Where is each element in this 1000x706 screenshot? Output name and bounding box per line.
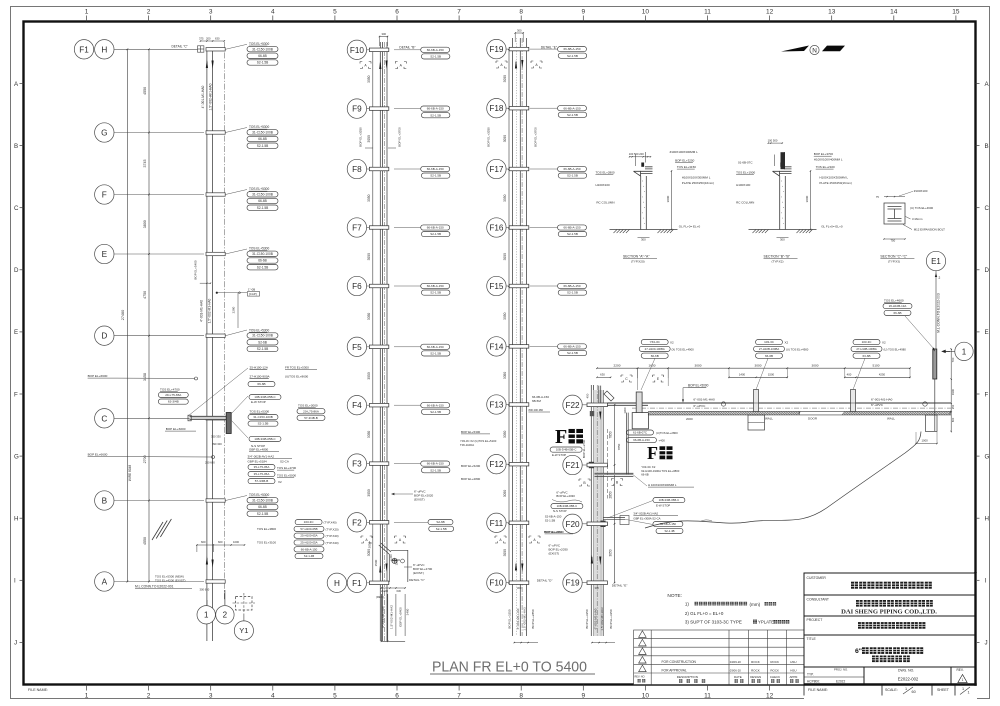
riser connection at F22 xyxy=(598,386,600,403)
svg-text:6": 6" xyxy=(855,648,862,655)
svg-text:1: 1 xyxy=(968,690,970,694)
svg-text:103-3C: 103-3C xyxy=(764,340,775,344)
centerline pipe run column 2 xyxy=(384,42,386,641)
svg-text:I: I xyxy=(985,578,987,585)
svg-text:200: 200 xyxy=(206,37,211,41)
grid bubble F14 xyxy=(487,337,506,356)
grid bubble F1 xyxy=(347,573,366,592)
svg-text:3: 3 xyxy=(209,693,213,700)
svg-text:BOP EL+3250: BOP EL+3250 xyxy=(585,609,589,629)
svg-text:6"-uPVC: 6"-uPVC xyxy=(871,403,884,407)
svg-text:3050: 3050 xyxy=(503,549,507,557)
F20 right small pipes xyxy=(603,517,625,519)
F2-area pill stack right xyxy=(295,520,322,525)
pipe run column 2 xyxy=(379,42,381,641)
bottom dims column 1 xyxy=(197,544,245,546)
svg-text:#100X100X300MM L: #100X100X300MM L xyxy=(670,150,699,154)
svg-text:NOTE:: NOTE: xyxy=(667,593,682,599)
svg-text:F3: F3 xyxy=(352,460,362,469)
svg-text:4: 4 xyxy=(271,9,275,16)
svg-text:B: B xyxy=(102,496,108,505)
svg-text:3158: 3158 xyxy=(143,373,147,381)
svg-text:F: F xyxy=(647,443,658,463)
svg-text:1600: 1600 xyxy=(649,363,656,367)
wall footing boxes xyxy=(748,415,765,430)
svg-text:9: 9 xyxy=(581,9,585,16)
svg-text:GBP EL+4800: GBP EL+4800 xyxy=(249,447,269,451)
svg-text:S2-1.5B: S2-1.5B xyxy=(567,54,578,58)
svg-text:+400: +400 xyxy=(659,439,666,443)
svg-text:D: D xyxy=(985,267,990,274)
svg-text:TOS EL+2100: TOS EL+2100 xyxy=(816,165,835,169)
svg-text:1.5"-002-M1-HA0: 1.5"-002-M1-HA0 xyxy=(208,298,212,323)
grid bubble F21 xyxy=(563,455,582,474)
svg-text:F22: F22 xyxy=(565,401,580,410)
svg-text:F10: F10 xyxy=(350,46,365,55)
svg-text:E1: E1 xyxy=(931,257,941,266)
svg-text:3460: 3460 xyxy=(406,608,410,615)
svg-text:S2-1.5B: S2-1.5B xyxy=(430,113,441,117)
svg-text:BOP EL+3700: BOP EL+3700 xyxy=(534,127,538,147)
grid bubble F7 xyxy=(347,218,366,237)
svg-text:10B-3/4B-05B-C: 10B-3/4B-05B-C xyxy=(254,395,275,399)
right end riser xyxy=(933,349,937,379)
svg-text:TYP.: TYP. xyxy=(807,672,814,676)
svg-text:4750: 4750 xyxy=(143,291,147,299)
svg-text:CUSTOMER: CUSTOMER xyxy=(807,576,827,580)
pipe run column 4 line d xyxy=(602,390,604,636)
svg-text:S2-1.5B: S2-1.5B xyxy=(567,232,578,236)
drawing title line1 xyxy=(862,647,923,654)
svg-text:BOP EL+3250: BOP EL+3250 xyxy=(507,609,511,629)
svg-text:G: G xyxy=(101,128,107,137)
svg-text:BOP EL+5300: BOP EL+5300 xyxy=(461,430,481,434)
svg-text:1: 1 xyxy=(85,693,89,700)
column 4 pipe gray band xyxy=(594,390,601,636)
svg-text:TOS EL+3100: TOS EL+3100 xyxy=(257,541,276,545)
leader lines from pills to posts xyxy=(756,358,768,389)
svg-text:TITLE: TITLE xyxy=(807,637,817,641)
svg-text:5: 5 xyxy=(333,693,337,700)
svg-text:12: 12 xyxy=(766,9,774,16)
sub dims xyxy=(597,376,611,378)
svg-text:PLATE 250X250(16mm): PLATE 250X250(16mm) xyxy=(819,181,851,185)
svg-text:66-6B: 66-6B xyxy=(258,505,267,509)
svg-text:TOS EL+5300: TOS EL+5300 xyxy=(249,125,269,129)
svg-text:66-6B-A-150: 66-6B-A-150 xyxy=(563,284,580,288)
flow arrows column 2 xyxy=(379,61,381,70)
svg-text:25-H100-12A: 25-H100-12A xyxy=(250,366,269,370)
svg-text:DOOR: DOOR xyxy=(808,417,818,421)
section detail B-B xyxy=(780,176,786,230)
svg-text:TOS EL+5300: TOS EL+5300 xyxy=(249,247,269,251)
svg-text:BOP EL+3250: BOP EL+3250 xyxy=(487,127,491,147)
svg-text:66-6B: 66-6B xyxy=(893,311,901,315)
svg-text:S2-6B: S2-6B xyxy=(436,520,444,524)
svg-text:DETAIL "E": DETAIL "E" xyxy=(541,45,557,49)
svg-text:3050: 3050 xyxy=(367,431,371,439)
labels row E column1 xyxy=(249,247,269,251)
wall hatched band xyxy=(648,411,951,415)
svg-text:F13: F13 xyxy=(489,400,504,409)
svg-text:N: N xyxy=(812,47,817,54)
slope hatch marks xyxy=(152,522,163,540)
svg-text:T06-110DA: T06-110DA xyxy=(460,443,474,447)
svg-text:14: 14 xyxy=(890,9,898,16)
svg-text:7850: 7850 xyxy=(617,443,621,450)
svg-text:A: A xyxy=(102,577,108,586)
svg-text:3050: 3050 xyxy=(503,372,507,380)
labels around F21 xyxy=(550,447,582,452)
svg-text:YPLATE: YPLATE xyxy=(758,619,774,624)
labels F2 column 2 xyxy=(428,520,453,525)
svg-text:63-6B: 63-6B xyxy=(862,354,870,358)
svg-text:WALL: WALL xyxy=(887,417,895,421)
svg-text:BOP EL+3250: BOP EL+3250 xyxy=(358,127,362,147)
section flags below F11 xyxy=(495,536,506,543)
svg-text:1.5"-002-AV1-HA0: 1.5"-002-AV1-HA0 xyxy=(209,83,213,110)
revision table xyxy=(634,630,804,685)
dimension line pipe run column 3 xyxy=(508,49,510,583)
C-row labels right xyxy=(250,366,269,370)
svg-text:HSU: HSU xyxy=(790,669,796,673)
svg-text:66-6B-A-150: 66-6B-A-150 xyxy=(427,462,444,466)
grid bubble G xyxy=(95,123,114,142)
svg-text:5: 5 xyxy=(333,9,337,16)
svg-text:S2-1.5B: S2-1.5B xyxy=(257,347,269,351)
svg-text:600: 600 xyxy=(951,417,955,422)
svg-text:X2: X2 xyxy=(278,480,282,484)
svg-text:2000: 2000 xyxy=(686,417,693,421)
section flags below F19 xyxy=(496,61,507,68)
labels column 3 xyxy=(558,47,587,52)
col1 bottom pipe tails xyxy=(206,556,208,565)
svg-text:TOS EL+5300: TOS EL+5300 xyxy=(249,328,269,332)
svg-text:F: F xyxy=(555,426,567,448)
svg-text:REV.: REV. xyxy=(957,668,964,672)
svg-text:(U) TOS EL+4900: (U) TOS EL+4900 xyxy=(786,347,809,351)
svg-text:J: J xyxy=(985,640,988,647)
svg-text:ROCK: ROCK xyxy=(770,660,779,664)
svg-text:BOP EL+3250: BOP EL+3250 xyxy=(609,609,613,629)
column 1 grid lines xyxy=(114,48,204,50)
svg-text:BOP EL+5400: BOP EL+5400 xyxy=(194,260,198,280)
svg-text:F14: F14 xyxy=(489,342,504,351)
svg-text:3800: 3800 xyxy=(143,220,147,228)
svg-text:BOP EL+6000: BOP EL+6000 xyxy=(166,427,186,431)
svg-text:2) GL FL+0 = EL+0: 2) GL FL+0 = EL+0 xyxy=(685,611,724,616)
svg-text:11: 11 xyxy=(704,693,711,700)
grid bubble F8 xyxy=(347,159,366,178)
svg-text:6"-001-M1-HA0: 6"-001-M1-HA0 xyxy=(594,608,598,629)
svg-text:6"-001-M1-HA0: 6"-001-M1-HA0 xyxy=(693,397,715,401)
svg-text:X2: X2 xyxy=(882,341,886,345)
svg-text:J: J xyxy=(14,640,17,647)
svg-text:66-6B-A-150: 66-6B-A-150 xyxy=(427,284,444,288)
svg-text:S2-1.5B: S2-1.5B xyxy=(430,351,441,355)
svg-text:2: 2 xyxy=(147,9,151,16)
grid bubble F13 xyxy=(487,395,506,414)
svg-text:X2: X2 xyxy=(670,341,674,345)
svg-text:E: E xyxy=(985,329,989,336)
svg-text:6: 6 xyxy=(395,9,399,16)
svg-text:TOS EL+3150: TOS EL+3150 xyxy=(677,165,696,169)
svg-text:D: D xyxy=(14,267,19,274)
svg-text:61-6B-07C: 61-6B-07C xyxy=(633,431,647,435)
dimension line pipe run column 2 xyxy=(372,50,374,583)
svg-text:7: 7 xyxy=(457,9,461,16)
svg-text:2200: 2200 xyxy=(614,363,621,367)
BOP EL+5000 label xyxy=(688,384,709,388)
svg-text:66-6B: 66-6B xyxy=(641,473,649,477)
svg-text:S2-1.4B: S2-1.4B xyxy=(304,554,315,558)
grid bubble F10 xyxy=(347,40,366,59)
svg-text:S2-1.5B: S2-1.5B xyxy=(430,291,441,295)
grid bubble F16 xyxy=(487,218,506,237)
extension lines for dims xyxy=(637,368,639,378)
svg-text:6"-001-M1-HA0: 6"-001-M1-HA0 xyxy=(871,397,893,401)
svg-text:(EXIST.): (EXIST.) xyxy=(413,571,424,575)
svg-text:S2-CA: S2-CA xyxy=(280,460,289,464)
svg-text:2: 2 xyxy=(147,693,151,700)
svg-text:3/4"-002B-AV1-HA2: 3/4"-002B-AV1-HA2 xyxy=(248,455,275,459)
svg-text:N-S STOP: N-S STOP xyxy=(553,509,567,513)
svg-text:S2-1.5B: S2-1.5B xyxy=(436,527,447,531)
svg-text:3000: 3000 xyxy=(812,363,819,367)
svg-text:7850: 7850 xyxy=(609,431,613,438)
svg-text:66-6B: 66-6B xyxy=(651,354,659,358)
svg-text:TOS EL+5300: TOS EL+5300 xyxy=(249,493,269,497)
grid bubble F19 xyxy=(563,573,582,592)
centerline pipe run column 3 xyxy=(521,38,523,636)
svg-text:04/09-20: 04/09-20 xyxy=(730,660,741,664)
svg-text:S2-1.5B: S2-1.5B xyxy=(545,518,556,522)
svg-text:GBP EL+5400: GBP EL+5400 xyxy=(398,607,402,627)
svg-text:57-H100-05B: 57-H100-05B xyxy=(300,527,317,531)
svg-text:#100X100: #100X100 xyxy=(914,189,928,193)
section flags below F2 xyxy=(361,536,372,543)
svg-text:26-H10B-13A: 26-H10B-13A xyxy=(889,304,907,308)
svg-text:GBP EL+308A S2-CA: GBP EL+308A S2-CA xyxy=(633,517,660,521)
svg-text:BOP EL+2850: BOP EL+2850 xyxy=(531,609,535,629)
svg-text:66-6B-A-150: 66-6B-A-150 xyxy=(427,345,444,349)
svg-text:TOS EL+4200 (EXIST): TOS EL+4200 (EXIST) xyxy=(155,579,186,583)
svg-text:BOP EL+5000: BOP EL+5000 xyxy=(688,384,709,388)
grid bubble A xyxy=(95,572,114,591)
svg-text:66-6B: 66-6B xyxy=(258,259,267,263)
svg-text:31-C150-100B: 31-C150-100B xyxy=(252,130,273,134)
svg-text:4250: 4250 xyxy=(879,373,886,377)
svg-text:BOP EL+2030: BOP EL+2030 xyxy=(556,494,575,498)
svg-text:27460: 27460 xyxy=(121,310,125,321)
svg-text:1: 1 xyxy=(905,687,907,691)
revision triangles xyxy=(639,631,647,638)
svg-text:31-C150-100B: 31-C150-100B xyxy=(252,252,273,256)
svg-text:63-3/4B: 63-3/4B xyxy=(168,400,179,404)
svg-text:6"-uPVC: 6"-uPVC xyxy=(693,404,706,408)
svg-text:8: 8 xyxy=(519,9,523,16)
detail block between F2 and F1 xyxy=(379,543,408,582)
labels column 2 xyxy=(421,47,450,52)
svg-text:3050: 3050 xyxy=(367,75,371,83)
centerline column 4 xyxy=(596,385,598,636)
svg-text:630: 630 xyxy=(600,373,605,377)
svg-text:7: 7 xyxy=(457,693,461,700)
300 dim top column 3 xyxy=(515,32,523,34)
svg-text:4"-001-M1-HA0: 4"-001-M1-HA0 xyxy=(201,85,205,108)
svg-text:3050: 3050 xyxy=(503,312,507,320)
svg-text:31-C150-100B: 31-C150-100B xyxy=(252,47,273,51)
svg-text:DESIGN: DESIGN xyxy=(750,675,761,679)
grid bubble F1 top-left xyxy=(74,40,93,59)
svg-text:1900: 1900 xyxy=(951,388,955,395)
F21 branch run xyxy=(595,473,634,475)
svg-text:F19: F19 xyxy=(565,579,580,588)
centerline column 1 xyxy=(223,42,225,600)
svg-text:2850: 2850 xyxy=(609,491,613,498)
customer company name xyxy=(851,582,932,589)
long leader S-curve xyxy=(645,432,921,529)
svg-text:H100X100X400MM L: H100X100X400MM L xyxy=(814,158,843,162)
svg-text:1000: 1000 xyxy=(233,540,239,544)
svg-text:3) SUP'T OF 3103-3C TYPE: 3) SUP'T OF 3103-3C TYPE xyxy=(685,619,742,624)
svg-text:3050: 3050 xyxy=(367,549,371,557)
wall posts xyxy=(754,390,759,412)
column 4 dark fittings xyxy=(589,462,594,468)
dims 800 400 480 below F13 xyxy=(528,411,550,413)
flow arrows column 4 xyxy=(591,555,593,564)
svg-text:E-W STOP: E-W STOP xyxy=(251,400,266,404)
svg-text:C: C xyxy=(101,414,107,423)
svg-text:10B-3/4B-05B-C: 10B-3/4B-05B-C xyxy=(556,448,577,452)
svg-text:66-6B: 66-6B xyxy=(257,382,265,386)
section detail C-C xyxy=(884,203,905,224)
svg-text:H: H xyxy=(334,579,340,588)
svg-text:13: 13 xyxy=(828,9,836,16)
svg-text:FILE NAME:: FILE NAME: xyxy=(28,688,48,692)
svg-text:2: 2 xyxy=(223,611,228,620)
section detail A-A xyxy=(641,176,647,230)
svg-text:100 500 200: 100 500 200 xyxy=(629,152,644,156)
svg-text:F9: F9 xyxy=(352,105,362,114)
thick border redraw over title block xyxy=(804,683,977,685)
svg-text:F1: F1 xyxy=(352,579,362,588)
svg-text:REV. NO: REV. NO xyxy=(635,676,645,679)
svg-text:S2-1.5B: S2-1.5B xyxy=(430,54,441,58)
svg-text:700: 700 xyxy=(951,357,955,362)
svg-text:66-6B-A-150: 66-6B-A-150 xyxy=(633,438,650,442)
svg-text:103-3C: 103-3C xyxy=(862,340,873,344)
svg-text:75: 75 xyxy=(876,195,879,199)
svg-text:6B-5M: 6B-5M xyxy=(532,399,541,403)
svg-text:(U) TOS EL+4600: (U) TOS EL+4600 xyxy=(910,206,934,210)
svg-text:66-6B: 66-6B xyxy=(258,137,267,141)
svg-text:DETAIL "C": DETAIL "C" xyxy=(172,44,188,48)
svg-text:FOR CONSTRUCTION: FOR CONSTRUCTION xyxy=(662,660,697,664)
labels row F column1 xyxy=(249,187,269,191)
svg-text:H: H xyxy=(101,45,107,54)
svg-text:1"-0B: 1"-0B xyxy=(248,288,255,292)
C-row labels left xyxy=(160,388,180,392)
svg-text:B: B xyxy=(14,143,18,150)
svg-text:S2-1.5B: S2-1.5B xyxy=(257,206,269,210)
svg-text:1.5"-002-M1-HA3: 1.5"-002-M1-HA3 xyxy=(600,607,604,631)
svg-text:3050: 3050 xyxy=(503,194,507,202)
svg-text:10: 10 xyxy=(642,9,650,16)
svg-text:1.5"-002-M1-HA2: 1.5"-002-M1-HA2 xyxy=(390,605,394,629)
svg-text:3000: 3000 xyxy=(666,195,670,202)
flanges pipe run column 2 xyxy=(369,48,388,52)
svg-text:66-6B-A-150: 66-6B-A-150 xyxy=(427,403,444,407)
svg-text:F4: F4 xyxy=(352,401,362,410)
svg-text:66-6B: 66-6B xyxy=(258,54,267,58)
TOS EL+4600 labels right xyxy=(884,299,904,303)
svg-text:66-6B: 66-6B xyxy=(765,354,773,358)
svg-text:1: 1 xyxy=(962,678,964,682)
svg-text:M12 EXPANSION BOLT: M12 EXPANSION BOLT xyxy=(914,227,945,231)
svg-text:1504: 1504 xyxy=(395,559,399,565)
grid bubble F20 xyxy=(563,514,582,533)
svg-text:3050: 3050 xyxy=(609,549,613,556)
svg-text:31-C150-100B: 31-C150-100B xyxy=(252,498,273,502)
svg-text:12: 12 xyxy=(766,693,774,700)
svg-text:300: 300 xyxy=(517,29,522,33)
pipe run column 4 line c xyxy=(600,390,602,636)
svg-text:F: F xyxy=(102,190,107,199)
svg-text:DETAIL "C": DETAIL "C" xyxy=(409,578,425,582)
svg-text:250 660: 250 660 xyxy=(205,461,215,465)
section cut flags C and E on run xyxy=(621,375,632,382)
svg-text:F11: F11 xyxy=(490,519,504,528)
svg-text:E2022: E2022 xyxy=(836,679,845,683)
svg-text:S2-1.5B: S2-1.5B xyxy=(257,512,269,516)
svg-text:BOP EL+6600: BOP EL+6600 xyxy=(88,453,108,457)
svg-text:10B-3/4B-05B-C: 10B-3/4B-05B-C xyxy=(557,504,578,508)
svg-text:PROJECT: PROJECT xyxy=(807,618,823,622)
svg-text:F10: F10 xyxy=(489,579,504,588)
svg-text:S2-1.5B: S2-1.5B xyxy=(430,174,441,178)
C-row leader lines xyxy=(231,396,248,414)
svg-text:25-H100-65A: 25-H100-65A xyxy=(300,534,317,538)
grid bubble F17 xyxy=(487,159,506,178)
svg-text:BOP EL+2700: BOP EL+2700 xyxy=(582,439,586,458)
svg-text:66-6B-A-150: 66-6B-A-150 xyxy=(563,344,580,348)
svg-text:66-6B-A-150: 66-6B-A-150 xyxy=(427,48,444,52)
labels row B column1 xyxy=(249,493,269,497)
svg-text:1: 1 xyxy=(962,687,964,691)
svg-text:I: I xyxy=(14,578,16,585)
svg-text:F19: F19 xyxy=(489,45,504,54)
svg-text:03/06-20: 03/06-20 xyxy=(730,669,741,673)
pipe run column 3 xyxy=(512,38,514,636)
svg-text:BOP EL+3700: BOP EL+3700 xyxy=(397,127,401,147)
svg-text:BOP EL+3600: BOP EL+3600 xyxy=(544,530,563,534)
drawing title line2 xyxy=(872,656,910,663)
svg-text:3000: 3000 xyxy=(755,363,762,367)
svg-text:TOS EL+3800: TOS EL+3800 xyxy=(257,527,276,531)
svg-text:(U) TOS EL+4980: (U) TOS EL+4980 xyxy=(884,347,907,351)
svg-text:TOS EL+5300: TOS EL+5300 xyxy=(250,410,270,414)
svg-text:Y1: Y1 xyxy=(239,626,248,635)
svg-text:PROJ. NO.: PROJ. NO. xyxy=(834,668,848,672)
svg-text:WALL: WALL xyxy=(765,417,773,421)
svg-text:400: 400 xyxy=(847,373,852,377)
svg-text:630: 630 xyxy=(397,589,402,593)
svg-text:DETAIL "B": DETAIL "B" xyxy=(399,45,415,49)
right side dims xyxy=(950,349,952,432)
grid bubble Y1 xyxy=(234,621,253,640)
horizontal centerline 6-uPVC xyxy=(632,407,951,409)
